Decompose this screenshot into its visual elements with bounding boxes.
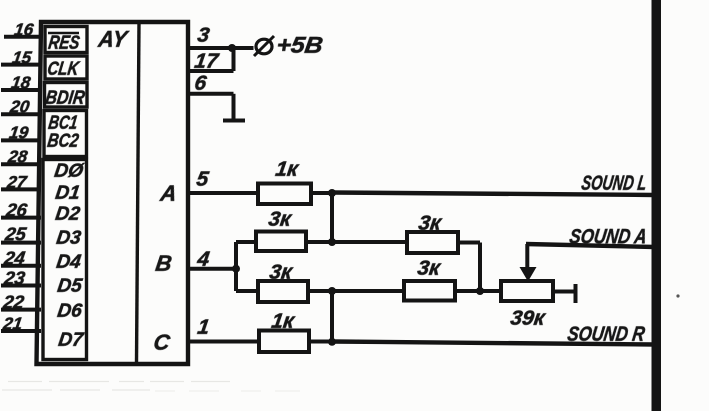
svg-text:D6: D6: [56, 301, 84, 322]
svg-text:17: 17: [193, 50, 221, 73]
svg-text:15: 15: [11, 48, 33, 67]
svg-text:3к: 3к: [417, 212, 444, 235]
svg-text:24: 24: [2, 248, 27, 269]
svg-text:SOUND L: SOUND L: [580, 172, 648, 195]
svg-text:23: 23: [2, 267, 27, 288]
svg-text:D5: D5: [56, 276, 84, 297]
svg-text:SOUND R: SOUND R: [566, 323, 647, 346]
svg-text:26: 26: [4, 199, 29, 220]
svg-text:RES: RES: [47, 33, 81, 54]
svg-text:22: 22: [1, 291, 26, 312]
svg-text:18: 18: [10, 74, 32, 93]
svg-text:+5B: +5B: [275, 32, 325, 58]
svg-text:CLK: CLK: [46, 59, 81, 80]
svg-text:D1: D1: [54, 183, 81, 204]
svg-text:20: 20: [8, 98, 31, 117]
svg-text:A: A: [158, 181, 178, 206]
svg-text:19: 19: [8, 124, 30, 143]
svg-text:BDIR: BDIR: [44, 88, 86, 109]
svg-text:D4: D4: [55, 252, 83, 273]
svg-text:16: 16: [13, 21, 35, 40]
svg-text:39к: 39к: [509, 307, 548, 330]
svg-text:25: 25: [3, 223, 28, 244]
svg-text:3к: 3к: [416, 257, 443, 280]
svg-text:DØ: DØ: [53, 161, 86, 182]
svg-text:D3: D3: [55, 228, 83, 249]
svg-text:3к: 3к: [267, 208, 294, 231]
svg-text:D7: D7: [57, 330, 86, 351]
svg-text:1к: 1к: [274, 158, 301, 181]
svg-text:21: 21: [1, 314, 24, 333]
svg-text:1к: 1к: [270, 310, 297, 333]
svg-text:3к: 3к: [268, 261, 295, 284]
svg-text:SOUND A: SOUND A: [568, 226, 648, 249]
svg-text:BC2: BC2: [46, 131, 80, 152]
svg-text:28: 28: [6, 148, 29, 167]
svg-text:D2: D2: [54, 204, 82, 225]
